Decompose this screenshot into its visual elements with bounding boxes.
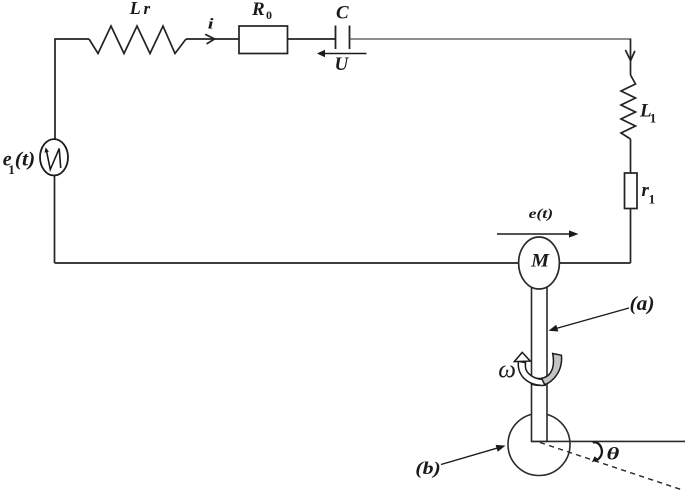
svg-text:U: U <box>335 54 350 75</box>
svg-text:L: L <box>129 0 141 18</box>
svg-text:e(t): e(t) <box>529 207 554 222</box>
svg-text:(a): (a) <box>630 293 655 315</box>
svg-text:ω: ω <box>498 357 516 384</box>
svg-text:R: R <box>251 0 265 20</box>
svg-text:θ: θ <box>607 444 621 464</box>
svg-text:C: C <box>336 2 349 23</box>
svg-text:1: 1 <box>649 191 656 206</box>
svg-text:M: M <box>530 251 550 272</box>
svg-text:0: 0 <box>266 8 272 22</box>
svg-text:1: 1 <box>650 111 657 126</box>
svg-text:i: i <box>208 17 215 33</box>
svg-text:r: r <box>144 0 151 18</box>
svg-text:(b): (b) <box>415 458 441 479</box>
svg-text:(t): (t) <box>15 148 36 170</box>
